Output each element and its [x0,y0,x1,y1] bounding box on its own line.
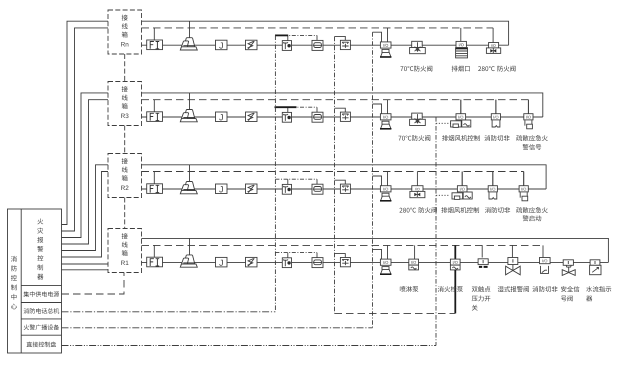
direct control panel cell [27,342,56,348]
wire: row4 power bus [142,238,609,262]
wire: bold hydrant pump direct line down [454,270,456,314]
wire: hydrant start dashed link to pump [335,312,456,314]
junction box Rn [108,10,142,54]
280C fire damper body [486,48,500,54]
wire: bold drop to hydrant pump [454,245,456,259]
pressure switch module [478,259,488,265]
wire: drop to wet alarm valve [511,245,513,257]
wire: drop to 280C damper row3 [416,172,418,186]
wire: drop to cut-power row4 [542,245,544,257]
pressure switch contacts [479,266,488,268]
label safety signal valve [561,286,579,292]
cut non-fire power row4 switch [541,266,549,274]
wire: row2 power bus [142,93,543,117]
row1 detector group [147,21,392,57]
label fan control row3 [441,207,479,213]
fire telephone cell [21,318,61,320]
wire: row1 power bus [142,21,509,45]
smoke exhaust outlet louvre [456,48,468,58]
wire: drop to 280C damper module [492,28,494,43]
label 280C damper row1 [478,66,515,72]
wire: controller to Rn power [62,21,109,224]
wire: drop to pressure switch [481,245,483,257]
fire control centre outer box [8,209,62,353]
label hydrant pump [438,286,463,292]
label cut power row2 [484,135,509,141]
junction box R1 [108,229,142,273]
fire alarm controller cell [21,284,61,286]
hydrant pump [450,259,460,270]
label smoke outlet [452,66,470,72]
label fan control row2 [442,135,480,141]
emergency start row2 [524,100,533,129]
label pressure switch [472,286,491,292]
central power cell [21,302,61,304]
wire: controller to R2 signal [62,172,109,258]
water flow indicator body [590,265,601,274]
emergency start row3 [519,172,528,201]
wire: dashed link R3-R2 [124,126,126,154]
label 70C damper row2 [398,135,430,141]
wire: dashed link Rn-R3 [124,54,126,82]
wire: controller to R1 power [62,263,109,265]
label emergency row2 [516,135,548,141]
70C fire damper row2 [410,113,426,125]
wire: direct-control tap row2 (dotted) [436,122,451,124]
cut non-fire power row3 [488,172,497,199]
row3 detector group [147,165,392,201]
water flow indicator module [590,260,600,266]
safety signal valve body [562,265,575,275]
wet alarm valve module [508,258,518,265]
wire: row1 loop line [142,44,509,46]
wire: drop to emergency module row2 [527,100,529,114]
wire: drop to smoke outlet module [460,28,462,42]
cut non-fire power row4 module [540,258,551,264]
wire: drop to fan module row3 [461,172,463,186]
wire: direct-control tap row3 (dotted) [436,194,449,196]
wire: row3 loop line [142,188,547,190]
label cut power row3 [485,207,510,213]
row2 detector group [147,93,392,129]
junction box R3 [108,82,142,126]
wire: power supply dashed to R1 [62,273,125,295]
wire: row3 power bus [142,165,547,189]
wire: drop to fan module row2 [460,100,462,114]
label water flow indicator [586,286,611,292]
wire: direct control trunk [62,345,437,347]
wire: dashed link R2-R1 [124,198,126,229]
row4 detector group [147,238,392,274]
junction box R2 [108,154,142,198]
broadcast riser [372,32,374,328]
wire: row2 loop line [142,116,543,118]
280C fire damper body row3 [410,191,425,197]
280C fire damper module row3 [412,186,423,192]
280C fire damper module [489,43,499,48]
label wet alarm valve [498,286,529,292]
telephone bold tap row2 [275,106,297,108]
safety signal valve module [563,260,573,266]
exhaust fan control row3 [452,172,472,200]
70C fire damper row1 [410,41,426,53]
wire: controller to R2 power [62,165,109,251]
sprinkler pump [409,259,419,270]
smoke exhaust outlet module [456,41,466,47]
label 70C damper row1 [400,66,432,72]
wire: row2 signal bus (dashed) [142,99,529,101]
wire: row4 signal bus (dashed) [142,244,544,246]
label cut power row4 [532,286,557,292]
wire: drop to cut-power row3 [492,172,494,186]
wire: drop to emergency row3 [523,172,525,186]
wire: row4 loop line [142,261,609,263]
wire: drop to cut-power module row2 [495,100,497,114]
wire: controller to R3 power [62,93,109,238]
wire: row1 signal bus (dashed) [142,27,494,29]
telephone bold tap row1 [275,34,288,36]
label sprinkler pump [400,286,418,292]
wire: drop to sprinkler pump [414,245,416,259]
telephone riser [274,35,276,311]
label 280C damper row3 [399,207,436,213]
exhaust fan control row2 [451,100,471,128]
wire: telephone trunk [62,311,276,313]
label emergency row3 [516,207,548,213]
cut non-fire power row2 [491,100,500,127]
wire: controller to Rn signal [62,28,109,231]
fire broadcast cell [21,334,61,336]
wire: controller to R1 signal [62,269,109,271]
control centre divider [20,209,22,353]
wet alarm valve body [506,265,521,275]
wire: row3 signal bus (dashed) [142,171,524,173]
wire: controller to R3 signal [62,100,109,244]
direct control riser [435,117,437,346]
wire: broadcast trunk [62,327,373,329]
hydrant button riser [334,37,336,314]
